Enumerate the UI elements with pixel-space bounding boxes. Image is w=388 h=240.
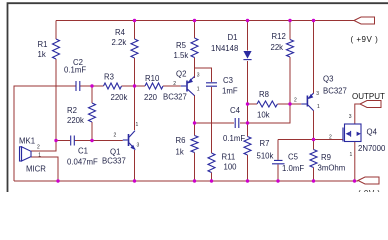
svg-text:BC337: BC337 xyxy=(102,157,126,166)
svg-text:220k: 220k xyxy=(67,116,84,125)
junction R4 top rail xyxy=(133,19,136,22)
svg-text:1: 1 xyxy=(136,122,139,128)
0V power tag xyxy=(358,177,381,198)
svg-text:C5: C5 xyxy=(288,153,299,162)
wire Q3 collector / R9 column xyxy=(313,111,315,182)
resistor R10 xyxy=(144,74,163,102)
svg-text:( 0V ): ( 0V ) xyxy=(358,189,381,192)
svg-text:2: 2 xyxy=(329,135,332,141)
wire Q4 gate line xyxy=(278,139,343,141)
svg-text:3: 3 xyxy=(316,91,319,97)
wire C3 to R11 column xyxy=(211,87,213,181)
transistor Q2 BC327 xyxy=(163,70,200,102)
svg-text:2.2k: 2.2k xyxy=(112,38,127,47)
junction Q4 source ground xyxy=(353,179,356,182)
junction mic-R1-C1 node xyxy=(54,139,57,142)
capacitor C5 xyxy=(272,153,304,174)
wire R8 line xyxy=(248,103,302,105)
svg-text:MICR: MICR xyxy=(26,165,46,174)
svg-text:1mF: 1mF xyxy=(222,87,238,96)
junction R12-R8 node xyxy=(288,102,291,105)
svg-text:R2: R2 xyxy=(67,106,77,115)
wire R7 column xyxy=(247,123,249,181)
capacitor C3 xyxy=(206,76,238,96)
resistor R4 xyxy=(112,28,139,58)
svg-text:D1: D1 xyxy=(228,33,238,42)
svg-text:2: 2 xyxy=(114,133,117,139)
svg-text:3: 3 xyxy=(349,114,352,120)
svg-text:R8: R8 xyxy=(259,90,269,99)
junction Q2 collector-C4-R6 node xyxy=(193,121,196,124)
junction R2 top xyxy=(90,84,93,87)
svg-text:R7: R7 xyxy=(260,139,270,148)
svg-text:Q1: Q1 xyxy=(110,148,120,157)
wire C1 base line xyxy=(56,140,123,142)
junction R6 ground xyxy=(193,179,196,182)
wire D1 column xyxy=(247,21,249,124)
svg-text:100: 100 xyxy=(224,163,238,172)
svg-text:220k: 220k xyxy=(111,93,128,102)
wire C3 top branch xyxy=(195,68,212,82)
svg-text:1.5k: 1.5k xyxy=(174,51,189,60)
svg-text:1k: 1k xyxy=(176,148,184,157)
svg-text:1: 1 xyxy=(38,153,41,159)
junction mic pin1 ground xyxy=(56,179,59,182)
resistor R5 xyxy=(174,38,199,60)
svg-text:220: 220 xyxy=(144,93,158,102)
transistor Q3 BC327 xyxy=(294,75,347,111)
svg-text:0.1mF: 0.1mF xyxy=(64,66,86,75)
resistor R12 xyxy=(271,32,294,57)
junction C4-D1-R7 node xyxy=(246,121,249,124)
resistor R3 xyxy=(104,73,128,103)
wire Q3 emitter column xyxy=(313,21,315,94)
junction R2 bottom xyxy=(90,139,93,142)
wire R12 column and link to C4 line xyxy=(248,21,291,124)
svg-text:R6: R6 xyxy=(176,136,186,145)
svg-text:R4: R4 xyxy=(115,28,126,37)
wire R5 / Q2 emitter column xyxy=(194,21,196,79)
wire Q2 collector column xyxy=(194,95,196,123)
wire C2 to Q2 base line xyxy=(80,85,181,87)
resistor R2 xyxy=(67,103,96,125)
resistor R11 xyxy=(208,153,237,173)
resistor R7 xyxy=(244,137,274,161)
wire C4 line xyxy=(195,122,248,124)
wire +9V top rail xyxy=(56,20,354,22)
svg-text:2N7000: 2N7000 xyxy=(358,144,386,153)
svg-text:1.0mF: 1.0mF xyxy=(282,164,304,173)
wire C5 column xyxy=(277,140,279,182)
wire bottom 0V rail xyxy=(14,180,358,182)
junction Q3 emitter top rail xyxy=(312,19,315,22)
svg-text:1k: 1k xyxy=(38,50,46,59)
OUTPUT tag xyxy=(352,92,385,108)
capacitor C4 xyxy=(223,106,245,143)
svg-text:R9: R9 xyxy=(321,153,331,162)
wire mic pin2 xyxy=(31,141,56,152)
svg-text:3: 3 xyxy=(197,73,200,79)
svg-text:2: 2 xyxy=(173,81,176,87)
wire Q4 source column xyxy=(354,142,356,182)
svg-text:C3: C3 xyxy=(223,76,233,85)
+9V power tag xyxy=(351,17,379,44)
svg-text:R1: R1 xyxy=(38,40,48,49)
svg-text:R10: R10 xyxy=(145,74,160,83)
junction R5 top rail xyxy=(193,19,196,22)
svg-text:R11: R11 xyxy=(222,153,236,162)
svg-text:2: 2 xyxy=(294,98,297,104)
microphone MK1 xyxy=(19,137,46,174)
wire R1 column xyxy=(55,21,57,141)
svg-text:R12: R12 xyxy=(272,32,286,41)
junction R9 ground xyxy=(312,179,315,182)
resistor R6 xyxy=(176,136,199,157)
svg-text:3mOhm: 3mOhm xyxy=(318,164,346,173)
svg-text:1: 1 xyxy=(197,87,200,93)
junction R3-R4 node xyxy=(133,84,136,87)
svg-text:1N4148: 1N4148 xyxy=(211,44,238,53)
svg-text:3: 3 xyxy=(137,143,140,149)
wire Q1 emitter column xyxy=(134,150,136,181)
capacitor C2 xyxy=(64,58,86,91)
wire R6 column xyxy=(194,123,196,181)
svg-text:1: 1 xyxy=(317,104,320,110)
resistor R1 xyxy=(38,39,60,59)
svg-text:R3: R3 xyxy=(104,73,114,82)
wire R4 / Q1 collector column xyxy=(134,21,136,131)
junction Q3 collector-gate node xyxy=(312,138,315,141)
svg-text:R5: R5 xyxy=(176,41,187,50)
svg-text:10k: 10k xyxy=(257,111,270,120)
capacitor C1 xyxy=(67,136,98,167)
transistor Q4 2N7000 xyxy=(329,114,386,158)
junction D1-R8 node xyxy=(246,102,249,105)
svg-text:Q4: Q4 xyxy=(367,128,378,137)
junction D1 top rail xyxy=(246,19,249,22)
resistor R8 xyxy=(257,90,277,120)
wire R2 column xyxy=(91,86,93,141)
svg-text:0.047mF: 0.047mF xyxy=(67,158,98,167)
svg-text:2: 2 xyxy=(37,145,40,151)
svg-text:OUTPUT: OUTPUT xyxy=(352,92,385,101)
junction R7 ground xyxy=(246,179,249,182)
resistor R9 xyxy=(310,150,345,173)
svg-text:C4: C4 xyxy=(230,106,241,115)
transistor Q1 BC337 xyxy=(102,122,140,166)
wire Q4 drain to output tag xyxy=(355,104,360,124)
svg-text:1: 1 xyxy=(350,152,353,158)
junction C5 ground xyxy=(276,179,279,182)
svg-text:510k: 510k xyxy=(257,152,274,161)
junction R11 ground xyxy=(210,179,213,182)
junction R12 top rail xyxy=(288,19,291,22)
svg-text:0.1mF: 0.1mF xyxy=(223,134,245,143)
wire mic pin1 xyxy=(31,157,58,181)
svg-text:BC327: BC327 xyxy=(323,87,347,96)
svg-text:MK1: MK1 xyxy=(19,137,35,146)
svg-text:C1: C1 xyxy=(78,147,88,156)
svg-text:Q2: Q2 xyxy=(176,70,186,79)
svg-text:( +9V ): ( +9V ) xyxy=(351,35,379,44)
junction Q1 emitter ground xyxy=(133,179,136,182)
wire left ground branch xyxy=(14,86,76,181)
svg-text:22k: 22k xyxy=(271,43,284,52)
svg-text:BC327: BC327 xyxy=(163,93,187,102)
svg-text:Q3: Q3 xyxy=(323,75,333,84)
diode D1 xyxy=(211,33,252,60)
border frame xyxy=(8,3,388,192)
